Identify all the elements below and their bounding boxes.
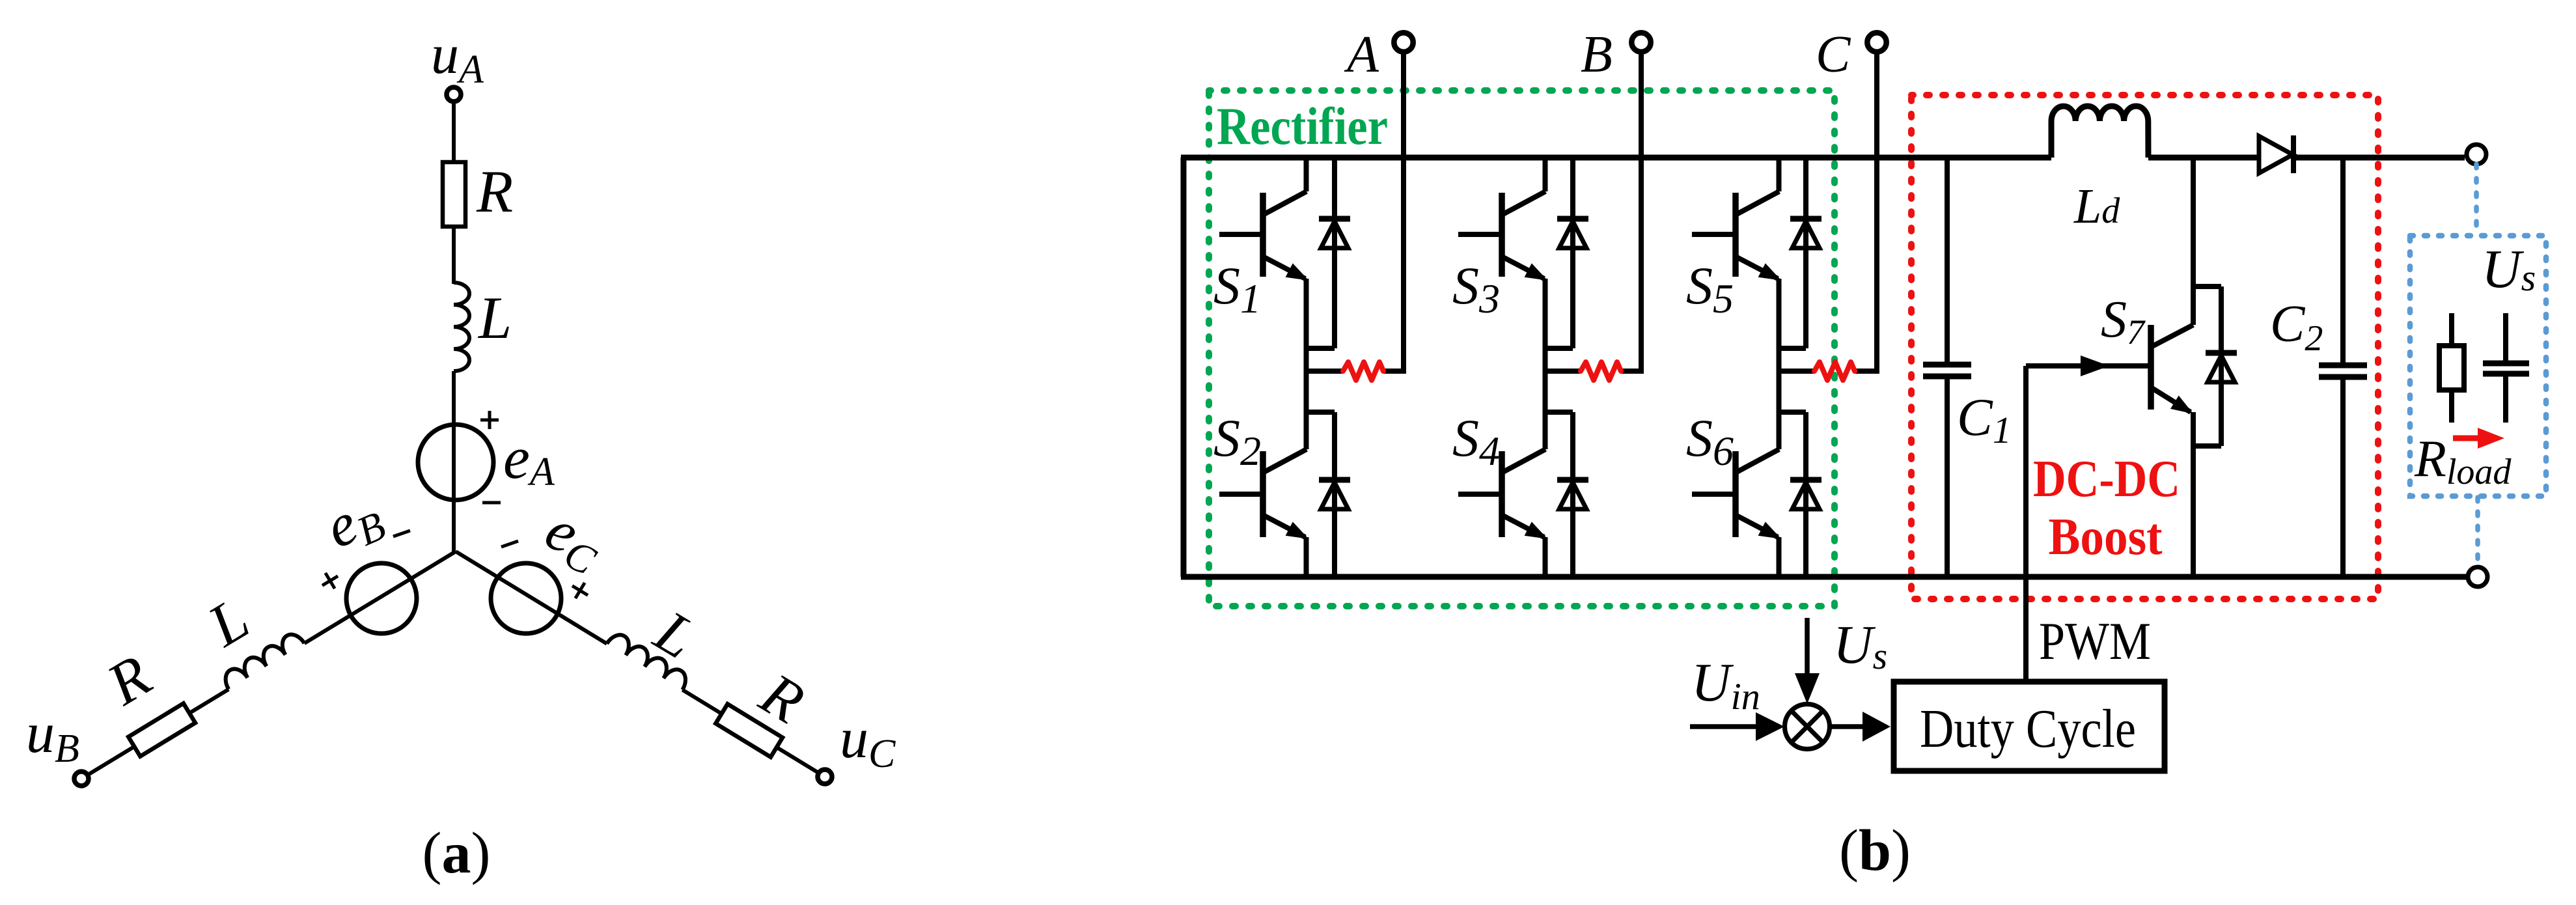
svg-text:A: A [1344,26,1379,83]
resistor R (phase B) [128,703,195,756]
mixer to Duty Cycle arrow [1830,724,1864,729]
blue dashed box load [2410,236,2546,496]
diode of S6 [1803,412,1808,577]
svg-text:Duty Cycle: Duty Cycle [1920,699,2136,759]
transistor S3 [1499,193,1505,277]
wire diode S1 bottom connect [1305,346,1335,351]
terminal uA [447,87,461,102]
load capacitor [2503,313,2508,361]
transistor S2 [1260,451,1266,537]
plus sign eB [318,568,342,593]
output terminal top [2467,145,2486,164]
source eC [491,563,561,633]
plus sign eC [568,578,592,603]
PWM wire [2023,366,2029,679]
svg-text:uB: uB [26,702,79,771]
svg-text:eA: eA [503,425,555,494]
left vertical wire [1181,158,1187,577]
transistor S6 [1732,451,1739,537]
wire emitter S6 to rail [1777,537,1782,577]
top DC bus [1181,155,2051,161]
terminal uC [818,770,832,784]
wire A resistor to inductor [452,227,456,284]
AC link squiggle A [1343,362,1383,380]
svg-text:S1: S1 [1213,256,1261,322]
diode of S4 [1570,412,1575,577]
svg-text:DC-DC: DC-DC [2033,451,2180,508]
wire emitter S1 to midpoint [1304,279,1309,449]
svg-text:C1: C1 [1957,387,2012,451]
Uin arrow [1690,724,1758,729]
AC link squiggle C [1814,362,1855,380]
svg-text:Ld: Ld [2073,179,2120,234]
resistor R (phase C) [715,704,782,757]
wire diode S6 top connect [1778,410,1806,415]
svg-text:(b): (b) [1839,818,1911,883]
green dashed box Rectifier [1209,90,1835,606]
AC link squiggle B [1581,362,1621,380]
svg-text:S6: S6 [1686,408,1734,474]
svg-text:S5: S5 [1686,256,1734,322]
svg-text:L: L [196,585,260,660]
terminal B [1631,33,1650,51]
svg-text:R: R [96,642,162,718]
diode of S1 [1332,158,1337,348]
load resistor Rload [2449,313,2454,346]
svg-text:B: B [1581,26,1613,83]
diode of S2 [1332,412,1337,577]
svg-text:S7: S7 [2101,291,2146,352]
svg-text:Uin: Uin [1691,652,1760,717]
svg-text:Boost: Boost [2049,508,2163,566]
inductor Ld [2051,106,2148,158]
wire phase A [1401,52,1406,371]
wire A inductor to source [452,371,456,551]
bottom DC rail [1181,574,2467,580]
svg-text:L: L [477,285,512,351]
svg-text:S2: S2 [1213,408,1261,474]
transistor S4 [1499,451,1505,537]
minus sign eB [393,531,410,536]
red current arrow [2453,436,2482,441]
minus sign eA [482,501,501,505]
capacitor C1 [1945,158,1950,362]
wire emitter S3 to midpoint [1543,279,1548,449]
transistor S5 [1732,193,1739,277]
wire phase B [1639,52,1644,371]
svg-text:Us: Us [1833,615,1887,677]
svg-text:uA: uA [431,23,484,92]
wire branch B [305,551,456,643]
diode of S7 [2193,284,2221,289]
source eB [346,563,417,633]
svg-text:PWM: PWM [2039,611,2151,671]
svg-text:S3: S3 [1452,256,1500,322]
wire phase connect B [1544,369,1581,374]
terminal C [1867,33,1886,51]
wire A terminal to resistor [452,102,456,163]
Us feedback arrow [1805,618,1810,676]
mixer [1785,704,1830,749]
svg-text:Rectifier: Rectifier [1217,96,1388,156]
capacitor C2 [2340,158,2346,363]
blue dashed link bottom [2475,497,2480,566]
svg-text:C2: C2 [2270,296,2323,359]
wire bus junction to S7 collector [2191,158,2196,325]
svg-text:S4: S4 [1452,408,1500,474]
svg-text:R: R [476,158,513,225]
S7 gate lead with arrow [2026,363,2151,369]
svg-text:(a): (a) [422,821,491,885]
terminal A [1394,33,1413,51]
wire emitter S5 to midpoint [1777,279,1782,449]
wire diode S2 top connect [1305,410,1335,415]
wire diode S5 bottom connect [1778,346,1806,351]
output terminal bottom [2468,567,2487,587]
svg-text:eB: eB [316,479,393,566]
wire branch C [456,551,607,644]
wire phase connect A [1305,369,1343,374]
inductor L (phase A) [454,283,469,371]
inductor L (phase C) [607,630,691,689]
wire emitter S4 to rail [1543,537,1548,577]
blue dashed link top [2474,164,2479,236]
transistor S1 [1260,193,1266,277]
wire emitter S2 to rail [1304,537,1309,577]
svg-text:uC: uC [840,707,896,776]
inductor L (phase B) [221,630,305,689]
minus sign eC [501,541,518,547]
resistor R (phase A) [443,162,465,227]
terminal uB [74,772,89,786]
source eA [418,425,493,500]
wire phase connect C [1778,369,1814,374]
svg-text:C: C [1816,26,1851,83]
Duty Cycle box [1894,682,2165,771]
diode of S5 [1803,158,1808,348]
wire diode S4 top connect [1544,410,1573,415]
red dashed box DC-DC Boost [1911,95,2378,599]
svg-text:Us: Us [2482,239,2536,299]
wire S7 emitter down [2191,412,2196,577]
wire diode S3 bottom connect [1544,346,1573,351]
diode of S3 [1570,158,1575,348]
plus sign eA [480,419,499,422]
transistor S7 [2148,325,2154,410]
wire phase C [1874,52,1879,371]
boost diode D [2259,136,2293,173]
